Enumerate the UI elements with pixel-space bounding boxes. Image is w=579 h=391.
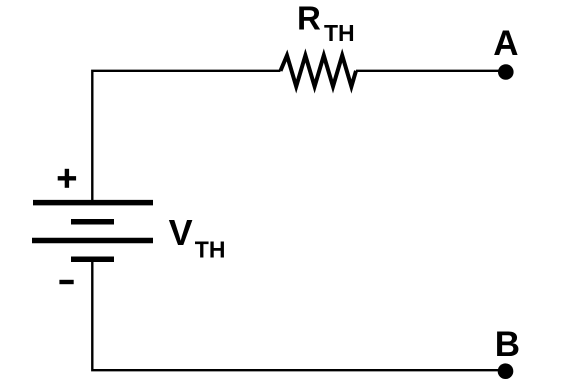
- svg-text:TH: TH: [195, 236, 226, 262]
- svg-text:V: V: [169, 212, 193, 253]
- svg-text:R: R: [297, 0, 321, 37]
- svg-text:B: B: [495, 325, 520, 364]
- svg-text:A: A: [493, 24, 518, 63]
- svg-text:TH: TH: [324, 20, 355, 46]
